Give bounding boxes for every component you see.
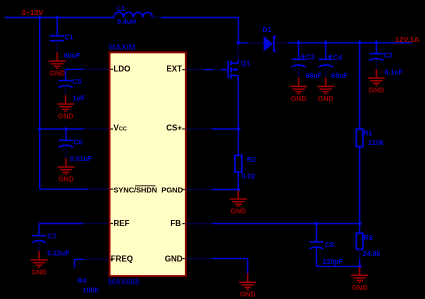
junction at rail / C4 bbox=[323, 40, 328, 45]
svg-text:R3: R3 bbox=[364, 235, 373, 242]
svg-text:FB: FB bbox=[170, 219, 181, 228]
ground under C4 bbox=[317, 78, 334, 94]
ground under C6 bbox=[58, 158, 75, 174]
svg-text:C2: C2 bbox=[384, 53, 393, 60]
junction at FB wire / C8 bbox=[314, 221, 319, 226]
svg-text:GND: GND bbox=[58, 114, 74, 121]
junction at drain node bbox=[236, 40, 241, 45]
svg-text:GND: GND bbox=[231, 209, 247, 216]
svg-text:1uF: 1uF bbox=[73, 95, 86, 102]
wire R1 to FB node bbox=[359, 147, 361, 224]
ground under R3 bbox=[351, 266, 368, 282]
resistor R3 top lead bbox=[359, 224, 361, 234]
svg-text:GND: GND bbox=[369, 88, 385, 95]
wire SYNC/SHDN pin bbox=[40, 188, 88, 190]
svg-text:GND: GND bbox=[240, 292, 256, 299]
capacitor C3 plus bbox=[301, 54, 305, 58]
ground under GND pin bbox=[239, 273, 256, 289]
capacitor C8 lead bbox=[315, 224, 317, 242]
pin stub C7 bottom (dark) bbox=[38, 241, 40, 251]
wire FREQ pin corner bbox=[75, 259, 85, 267]
pin stub C3 bottom (dark) bbox=[298, 66, 300, 78]
junction at FB node bbox=[357, 221, 362, 226]
pin stub C1 bottom (dark) bbox=[56, 41, 58, 53]
capacitor C5 lead bbox=[65, 69, 67, 80]
pin stub GND (dark) bbox=[186, 258, 212, 260]
svg-text:GND: GND bbox=[49, 71, 65, 78]
svg-text:MAXIM: MAXIM bbox=[109, 43, 136, 52]
pin stub PGND (dark) bbox=[186, 189, 212, 191]
svg-text:0.01uF: 0.01uF bbox=[70, 156, 93, 163]
wire R3 to ground node bbox=[359, 259, 361, 266]
pin stub LDO (dark) bbox=[84, 68, 110, 70]
pin stub SYNC (dark) bbox=[88, 188, 110, 190]
ground under C2 bbox=[368, 69, 385, 85]
junction tick at left vertical / Vcc wire bbox=[37, 127, 41, 131]
junction at rail / C2 bbox=[374, 40, 379, 45]
ground under C7 bbox=[31, 251, 48, 267]
svg-text:3~13V: 3~13V bbox=[22, 8, 44, 17]
junction at ground node bbox=[357, 264, 362, 269]
pin stub CS+ (dark) bbox=[186, 128, 212, 130]
capacitor C6 lead bbox=[65, 129, 67, 140]
wire R2 to PGND node bbox=[237, 172, 239, 189]
pin stub Q1 drain (dark) bbox=[237, 44, 239, 60]
svg-text:0.1uF: 0.1uF bbox=[385, 70, 404, 77]
svg-text:100K: 100K bbox=[83, 287, 100, 294]
svg-text:C4: C4 bbox=[333, 55, 342, 62]
capacitor C7 lead bbox=[38, 224, 40, 236]
svg-text:Q1: Q1 bbox=[241, 61, 250, 68]
wire PGND pin bbox=[212, 189, 239, 191]
svg-text:C7: C7 bbox=[48, 234, 57, 241]
capacitor C4 plus bbox=[328, 54, 332, 58]
wire LDO pin bbox=[66, 68, 84, 70]
capacitor C2 lead bbox=[375, 43, 377, 54]
junction at input rail / left vertical bbox=[38, 15, 42, 19]
svg-text:D1: D1 bbox=[263, 27, 272, 34]
junction at rail / R1 bbox=[357, 40, 362, 45]
capacitor C3 lead bbox=[298, 43, 300, 59]
wire CS+ pin bbox=[212, 128, 239, 130]
svg-text:GND: GND bbox=[58, 177, 74, 184]
resistor R3 bbox=[356, 233, 363, 249]
transistor Q1 bbox=[221, 60, 238, 79]
pin stub C2 bottom (dark) bbox=[375, 59, 377, 69]
capacitor C7 bbox=[32, 236, 46, 243]
capacitor C1 lead bbox=[56, 18, 58, 36]
svg-text:24.9k: 24.9k bbox=[363, 251, 381, 258]
svg-text:PGND: PGND bbox=[161, 186, 183, 195]
wire REF pin bbox=[39, 223, 83, 225]
junction at rail / C3 bbox=[296, 40, 301, 45]
capacitor C2 bbox=[369, 54, 383, 61]
wire output rail bbox=[289, 42, 412, 44]
wire GND pin bbox=[212, 259, 248, 274]
capacitor C6 bbox=[59, 140, 73, 147]
capacitor C1 bbox=[50, 36, 64, 41]
svg-text:GND: GND bbox=[31, 270, 47, 277]
svg-text:L1: L1 bbox=[117, 6, 125, 13]
svg-text:0.02: 0.02 bbox=[242, 174, 256, 181]
pin stub FREQ (dark) bbox=[84, 258, 110, 260]
capacitor C3 bbox=[292, 59, 306, 67]
pin stub FB (dark) bbox=[186, 223, 212, 225]
wire FB pin bbox=[212, 223, 360, 225]
pin stub C5 bottom (dark) bbox=[65, 86, 67, 95]
wire left vertical rail bbox=[39, 18, 41, 190]
capacitor C5 bbox=[59, 81, 73, 88]
pin stub EXT (dark) bbox=[186, 69, 204, 71]
svg-text:FREQ: FREQ bbox=[111, 254, 133, 263]
wire L1 to corner bbox=[161, 17, 238, 19]
wire corner down to drain node bbox=[237, 18, 239, 44]
wire input rail left bbox=[5, 17, 114, 19]
svg-text:C1: C1 bbox=[64, 35, 73, 42]
capacitor C4 bbox=[319, 59, 333, 67]
svg-text:GND: GND bbox=[291, 96, 307, 103]
svg-text:C8: C8 bbox=[325, 242, 334, 249]
svg-text:EXT: EXT bbox=[166, 64, 182, 73]
svg-text:C3: C3 bbox=[306, 55, 315, 62]
capacitor C4 lead bbox=[325, 43, 327, 59]
wire Vcc pin bbox=[40, 128, 84, 130]
wire Q1 source down to R2 bbox=[237, 76, 239, 156]
svg-text:GND: GND bbox=[318, 96, 334, 103]
ground under C1 bbox=[49, 52, 66, 68]
svg-text:CS+: CS+ bbox=[166, 124, 182, 133]
wire EXT to gate bbox=[204, 69, 213, 71]
junction at PGND node bbox=[236, 187, 241, 192]
junction at Vcc wire / C6 bbox=[64, 127, 68, 131]
wire rail to R1 bbox=[359, 43, 361, 129]
capacitor C8 bbox=[309, 242, 323, 249]
svg-text:SYNC/SHDN: SYNC/SHDN bbox=[114, 186, 158, 195]
pin tick marks inside block bbox=[111, 69, 185, 259]
svg-text:R2: R2 bbox=[247, 157, 256, 164]
svg-text:MAX668: MAX668 bbox=[108, 278, 140, 287]
pin stub diode anode (dark) bbox=[248, 42, 264, 44]
ground under C3 bbox=[290, 78, 307, 94]
svg-text:GND: GND bbox=[165, 254, 183, 263]
resistor R2 bbox=[235, 155, 242, 172]
svg-text:0.22uF: 0.22uF bbox=[47, 250, 70, 257]
pin stub diode cathode (dark) bbox=[276, 42, 289, 44]
pin stub C6 bottom (dark) bbox=[65, 146, 67, 158]
diode D1 bbox=[264, 36, 276, 52]
svg-text:REF: REF bbox=[114, 219, 130, 228]
wire node to diode anode bbox=[238, 42, 247, 44]
svg-text:220pF: 220pF bbox=[323, 259, 344, 266]
inductor L1 bbox=[114, 12, 152, 17]
wire C8 bottom to ground node bbox=[316, 248, 359, 266]
svg-text:C6: C6 bbox=[74, 140, 83, 147]
svg-text:R4: R4 bbox=[77, 278, 86, 285]
svg-text:LDO: LDO bbox=[114, 64, 131, 73]
svg-text:0.4uH: 0.4uH bbox=[117, 19, 136, 26]
pin stub Vcc (dark) bbox=[84, 128, 110, 130]
svg-text:GND: GND bbox=[352, 285, 368, 292]
pin stub C4 bottom (dark) bbox=[325, 66, 327, 78]
pin stub L1 right (dark) bbox=[152, 17, 161, 19]
svg-text:C5: C5 bbox=[73, 79, 82, 86]
junction at CS+ / source line bbox=[236, 127, 241, 132]
op-amp U1 MAX668 block bbox=[110, 52, 186, 276]
svg-text:R1: R1 bbox=[363, 130, 372, 137]
resistor R1 bbox=[356, 129, 363, 147]
svg-text:68uF: 68uF bbox=[331, 73, 348, 80]
junction at input rail / C1 bbox=[55, 15, 59, 19]
pin stub R3 bottom (dark) bbox=[359, 249, 361, 259]
svg-text:68uF: 68uF bbox=[306, 73, 323, 80]
ground under PGND node bbox=[230, 190, 247, 206]
svg-text:12V,1A: 12V,1A bbox=[395, 35, 420, 44]
pin stub REF (dark) bbox=[83, 223, 110, 225]
svg-text:210k: 210k bbox=[368, 140, 384, 147]
svg-text:60uF: 60uF bbox=[64, 53, 81, 60]
ground under C5 bbox=[57, 95, 74, 111]
pin stub Q1 gate (dark) bbox=[213, 69, 221, 71]
